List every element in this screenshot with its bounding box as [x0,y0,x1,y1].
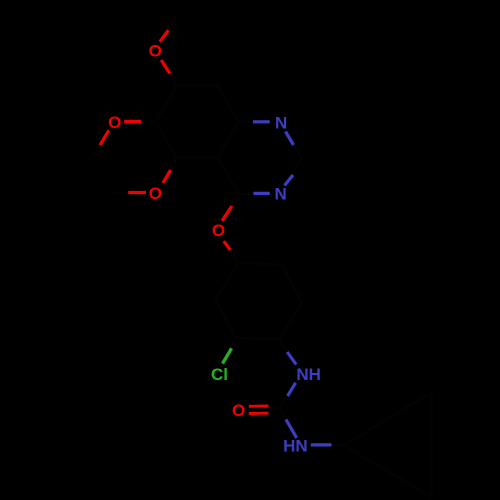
svg-text:Cl: Cl [211,365,228,384]
urea C=O and N bonds [239,408,344,445]
red: carbonyl double bond [249,404,269,407]
NH bonds [279,339,302,408]
red: methoxy O7 [160,30,169,42]
cyclopropyl faint [344,393,432,498]
svg-text:HN: HN [283,436,308,455]
svg-text:O: O [108,113,121,132]
phenoxy ring [215,263,302,339]
faint carbon skeleton [93,14,432,497]
svg-text:O: O [232,401,245,420]
green: Cl [223,348,232,363]
svg-text:N: N [275,114,287,133]
svg-text:O: O [149,41,162,60]
Cl bond [216,338,235,374]
red: methoxy O6 [124,120,141,123]
blue: NH [287,352,296,365]
red: methoxy O5 [128,191,146,194]
methoxy bonds [155,14,176,85]
svg-text:O: O [212,221,225,240]
blue: HN [286,420,297,438]
red: aryl ether O4 [222,206,232,221]
quinazoline benzo ring [156,86,239,158]
atom labels [108,41,321,455]
blue: N1 [253,120,270,123]
svg-text:O: O [149,184,162,203]
svg-text:NH: NH [296,365,321,384]
blue: N3 [253,192,269,195]
svg-text:N: N [274,185,286,204]
colored half-bonds [100,30,332,445]
aryl ether bonds [219,194,240,263]
quinazoline pyrimidine ring [218,122,302,194]
